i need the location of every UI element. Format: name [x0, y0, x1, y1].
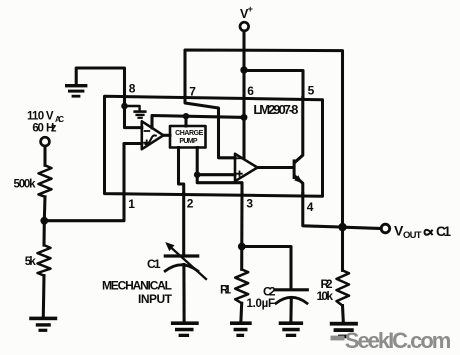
ground below R1: [230, 321, 252, 337]
capacitor C1 bottom curved plate: [165, 265, 198, 271]
resistor R2 zigzag: [337, 270, 350, 305]
capacitor C1 arrow: [170, 247, 206, 279]
node junction dot pin 8: [121, 103, 128, 110]
op-amp U3: [235, 154, 257, 181]
wire pin 4 to VOUT node: [303, 194, 343, 228]
wire rail to charge pump top: [184, 116, 187, 126]
transistor Q1 collector: [295, 98, 302, 162]
node junction dot charge pump output: [194, 171, 201, 178]
svg-text:C1: C1: [147, 257, 161, 271]
wire R2 to ground: [341, 306, 345, 322]
wire pin 7 internal to op-amp U3 minus input: [185, 96, 235, 158]
wire U3 output to transistor base: [257, 166, 292, 169]
svg-text:PUMP: PUMP: [179, 138, 198, 145]
node junction 500k/5k/pin1: [40, 217, 48, 225]
op-amp IC box LM2907-8: [105, 96, 323, 196]
wire junction to pin 1: [44, 194, 124, 221]
svg-text:4: 4: [307, 200, 314, 214]
node VOUT terminal: [381, 224, 390, 233]
capacitor C2 top plate: [276, 288, 308, 291]
wire pin 8 internal: [123, 98, 126, 107]
wire 500k to junction: [43, 197, 47, 221]
svg-text:1: 1: [128, 197, 135, 211]
node VOUT junction dot: [338, 223, 346, 231]
ground below 5k: [29, 317, 57, 332]
node junction dot R1/C2: [238, 243, 246, 251]
wire pin 8 to external ground: [76, 68, 124, 98]
node junction dot above charge pump: [183, 113, 189, 119]
wire V+ rail internal: [152, 116, 244, 128]
wire pin 1 to op-amp U1 plus input: [124, 144, 142, 194]
ground below C1: [171, 321, 199, 337]
wire V+ stem down to pin 6: [242, 31, 245, 117]
op-amp U3 plus sign: [237, 171, 242, 176]
svg-text:5k: 5k: [25, 256, 37, 268]
wire VOUT node to terminal: [343, 227, 382, 228]
wire pin8 dot to internal ground: [125, 106, 140, 111]
ground internal: [133, 110, 146, 119]
op-amp U1 minus sign: [145, 130, 150, 132]
resistor R 5k: [38, 245, 51, 276]
charge pump U2 box: [170, 126, 206, 148]
svg-text:8: 8: [129, 81, 136, 95]
svg-text:7: 7: [189, 85, 196, 99]
ground top-left external: [65, 84, 87, 98]
svg-text:110 V: 110 V: [27, 111, 54, 123]
svg-text:INPUT: INPUT: [138, 292, 173, 306]
wire pin8 dot to op-amp U1 minus input: [125, 106, 142, 128]
transistor Q1 emitter: [295, 177, 302, 194]
svg-text:Hz: Hz: [46, 123, 57, 135]
wire VOUT node down to R2: [341, 227, 344, 270]
svg-text:C2: C2: [263, 284, 276, 298]
wire to op-amp U3 plus input: [197, 173, 235, 176]
capacitor C2 bottom curved plate: [276, 297, 307, 303]
resistor R1 zigzag: [235, 269, 248, 303]
op-amp U1 plus sign: [144, 140, 149, 145]
wire source to 500k: [43, 146, 46, 165]
svg-text:SeekIC.com: SeekIC.com: [345, 328, 452, 353]
wire pin 3 down to R1 node: [240, 194, 243, 247]
svg-text:CHARGE: CHARGE: [175, 130, 204, 137]
transistor Q1 base bar: [293, 159, 296, 179]
wire 5k to ground: [42, 276, 46, 317]
capacitor C1 variable top plate: [165, 254, 197, 257]
wire node to R1: [240, 247, 243, 270]
svg-text:R1: R1: [220, 282, 231, 296]
op-amp U1 input comparator: [142, 121, 164, 149]
wire node to C2: [242, 247, 291, 289]
svg-text:+: +: [248, 4, 253, 14]
svg-text:60: 60: [32, 123, 44, 135]
wire charge pump bottom right stub: [196, 148, 199, 175]
resistor R 500k: [39, 165, 52, 197]
transistor Q1 emitter arrow: [294, 175, 302, 183]
wire pin 2 down to C1: [182, 194, 185, 255]
op-amp U1 hysteresis mark: [145, 135, 155, 144]
svg-text:OUT: OUT: [403, 230, 422, 241]
svg-text:1.0µF: 1.0µF: [247, 298, 276, 310]
svg-text:10k: 10k: [317, 289, 334, 303]
svg-text:2: 2: [187, 197, 194, 211]
wire charge pump output to pin 3: [197, 175, 242, 194]
node junction dot rail/pin 6: [241, 114, 248, 121]
op-amp U3 minus sign: [237, 157, 242, 159]
wire C2 to ground: [289, 298, 292, 322]
wire U1 output to charge pump: [163, 134, 170, 137]
ground below R2: [330, 322, 358, 338]
svg-text:5: 5: [308, 83, 315, 97]
wire junction to 5k: [42, 221, 45, 245]
wire R1 to ground: [239, 303, 243, 321]
wire charge pump bottom to pin 2: [179, 148, 184, 194]
wire V+ branch to pin 5: [244, 71, 303, 98]
wire pin 7 to VOUT top loop: [185, 50, 343, 227]
ground below C2: [279, 321, 303, 337]
svg-text:500k: 500k: [14, 179, 37, 191]
svg-text:MECHANICAL: MECHANICAL: [102, 278, 172, 292]
svg-text:6: 6: [247, 84, 254, 98]
svg-text:LM2907-8: LM2907-8: [253, 102, 298, 117]
svg-text:C1: C1: [436, 224, 451, 239]
wire C1 to ground: [182, 265, 185, 322]
svg-text:3: 3: [246, 197, 253, 211]
wire pin 6 down to op-amp U3 top: [242, 117, 245, 158]
node V+ terminal: [240, 22, 249, 31]
node 110 VAC terminal: [41, 137, 50, 146]
watermark SeekIC.com: [331, 336, 345, 341]
node junction dot on V+ line: [240, 66, 247, 73]
